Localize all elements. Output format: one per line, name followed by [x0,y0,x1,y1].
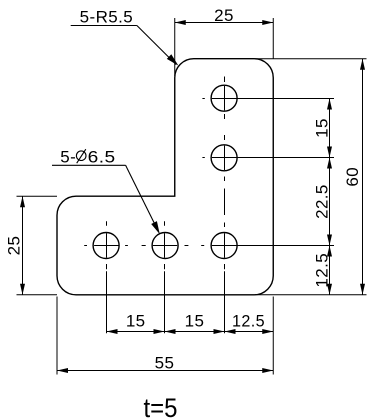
svg-text:t=5: t=5 [144,393,178,419]
dimension 15 (right, A-B) line [329,99,331,158]
dimension 25 (left) line [22,196,24,295]
svg-text:25: 25 [214,6,234,25]
centerline horizontal through holes E,D,C + extension to right dim line [84,245,334,247]
right outer dim 60 extension line (top edge) [255,58,367,60]
dimension 25 (top) arrows [175,20,186,25]
svg-text:15: 15 [126,312,146,331]
leader 5-R5.5 (corner radius callout) [71,26,177,65]
svg-text:55: 55 [155,353,175,372]
dimension 25 (left) extension lines [17,196,58,295]
dimension 12.5 (bottom, C-edge) line [225,331,274,333]
dimension 15 (bottom, E-D) line [107,331,165,333]
bottom chain dims extension lines [57,297,273,375]
dimension 55 (bottom) line [57,370,273,372]
svg-text:15: 15 [185,312,205,331]
leader 5-diameter6.5 (hole size callout) [52,165,158,230]
centerline vertical through holes A,B,C [224,77,226,334]
hole C (bottom-right) [211,233,237,259]
right chain dims extension line (bottom edge) [255,294,367,296]
centerline vertical through hole D [164,221,166,333]
centerline horizontal through hole B + extension to right dim line [202,157,334,159]
hole D (bottom-middle) [152,233,178,259]
svg-text:22.5: 22.5 [313,184,332,219]
dimension 15 (bottom, D-C) line [165,331,225,333]
plate outline (L-shaped bracket, 5 corners R5.5) [57,59,273,295]
svg-text:15: 15 [313,118,332,138]
svg-text:12.5: 12.5 [313,253,332,288]
svg-text:12.5: 12.5 [232,312,265,331]
svg-text:60: 60 [343,167,362,187]
leader 5-diameter6.5 label [60,148,115,167]
centerline vertical through hole E [106,221,108,333]
dimension 12.5 (right, C-bottom) line [329,246,331,295]
dimension 25 (top) line [175,22,274,24]
hole A (top, vertical arm) [211,85,237,111]
svg-text:25: 25 [5,236,24,256]
hole B (second, vertical arm) [211,145,237,171]
svg-text:5-R5.5: 5-R5.5 [80,8,133,27]
centerline horizontal through hole A + extension to right dim line [202,98,334,100]
svg-text:6.5: 6.5 [88,148,116,167]
dimension 25 (top) extension lines [175,18,274,76]
hole E (bottom-left) [93,233,119,259]
dimension 60 (right outer) line [362,59,364,295]
svg-text:5-: 5- [60,148,76,167]
dimension 22.5 (right, B-C) line [329,158,331,246]
